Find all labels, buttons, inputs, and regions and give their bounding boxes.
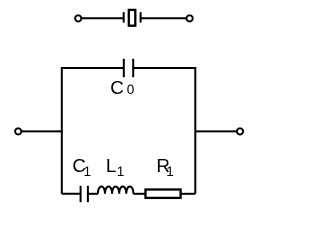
inductor L1 (98, 187, 133, 194)
wire (141, 17, 187, 19)
wire (181, 193, 196, 195)
svg-text:1: 1 (166, 164, 174, 179)
svg-text:1: 1 (84, 164, 92, 179)
wire (195, 130, 236, 132)
crystal Y1 terminal left (75, 15, 81, 21)
svg-text:C: C (110, 77, 124, 98)
svg-text:L: L (106, 155, 116, 176)
svg-text:1: 1 (117, 164, 125, 179)
wire (22, 130, 63, 132)
wire (133, 193, 145, 195)
crystal Y1 (124, 10, 141, 26)
wire (62, 193, 81, 195)
node left terminal (15, 128, 21, 134)
node right terminal (237, 128, 243, 134)
crystal Y1 terminal right (187, 15, 193, 21)
wire (133, 68, 195, 194)
resistor R1 (146, 190, 181, 198)
svg-text:0: 0 (127, 82, 135, 97)
wire (62, 68, 124, 194)
capacitor C1 (81, 186, 88, 202)
capacitor C0 (124, 59, 133, 77)
wire (88, 193, 98, 195)
wire (82, 17, 124, 19)
